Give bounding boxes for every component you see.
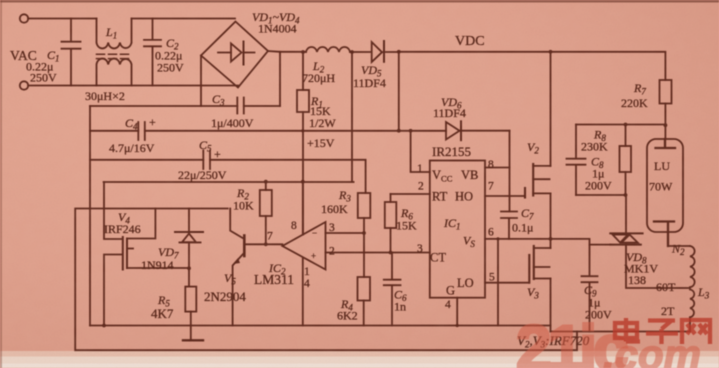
wire line C (22u line): [90, 160, 366, 193]
wire V2 drain column: [550, 52, 552, 166]
wire C8/R8 bottom rail: [576, 194, 626, 196]
resistor R2: [265, 182, 267, 190]
wire V3 source column: [550, 279, 552, 332]
wire R3-R4 divider column: [363, 218, 365, 277]
wire VD5-anode node column: [351, 52, 353, 182]
wire VDC to Vcc branch column: [398, 52, 400, 131]
wire AC bottom line: [28, 85, 238, 87]
wire pin1 stub: [411, 131, 430, 172]
IC1 IR2155 box: [430, 161, 485, 298]
wire lamp bottom to N2: [668, 245, 690, 247]
wire line D (+15V rail): [104, 181, 354, 183]
wire half-bridge midpoint column: [550, 193, 552, 248]
op-amp IC2 LM311 triangle: [282, 222, 325, 270]
wire V4 gate column: [104, 182, 122, 326]
resistor R7: [660, 80, 672, 104]
wire diac top to R8: [625, 195, 627, 233]
wire LM311 pin2 input to CT: [326, 252, 430, 254]
resistor R6: [390, 194, 392, 202]
wire LO-side column: [497, 239, 499, 326]
resistor R5: [185, 287, 196, 312]
wire DC+ to L2: [280, 51, 306, 53]
bridge rectifier VD1-VD4 diamond: [201, 22, 268, 88]
lamp LU 70W tube: [647, 139, 683, 232]
wire midpoint rail to resonant: [551, 239, 611, 245]
diode VD6: [446, 122, 460, 140]
capacitor C1: [62, 19, 81, 86]
wire AC top line: [28, 18, 235, 20]
wire line B (Vcc line): [90, 130, 510, 132]
transistor V2 MOSFET: [524, 188, 526, 198]
IC1 pin numbers: [417, 159, 495, 311]
capacitor C9: [582, 245, 598, 332]
wire lamp top rail: [576, 124, 665, 126]
diode VD5: [372, 42, 382, 62]
wire line A (C3 line): [90, 105, 280, 107]
wire feedback box: [75, 209, 577, 351]
winding N2 60T: [690, 246, 695, 287]
wire L3 bottom return: [551, 317, 691, 331]
wire bottom bus: [90, 325, 551, 327]
resistor R3: [358, 193, 371, 218]
terminal top VAC: [20, 14, 28, 22]
inductor L2: [306, 47, 350, 52]
wire pin4 column: [456, 298, 458, 326]
resistor R4: [358, 277, 371, 301]
inductor L1 common-mode choke: [97, 19, 132, 49]
wire left bus column: [89, 106, 91, 326]
transistor V3 MOSFET: [528, 255, 530, 283]
resistor R1: [302, 52, 304, 90]
wire LM311 pin8 column: [302, 182, 304, 235]
winding L3 2T: [690, 290, 694, 318]
wire diac bottom lead: [626, 245, 690, 288]
capacitor C3: [237, 98, 244, 114]
wire LM311 pin1/4 column: [302, 258, 304, 326]
wire pin8 stub: [485, 167, 510, 169]
wire bridge AC left leg: [200, 56, 202, 107]
wire pin6 VS line: [485, 238, 551, 240]
watermark char dian: [615, 318, 710, 344]
wire pin5 LO stub: [485, 282, 529, 284]
capacitor C8: [567, 125, 586, 196]
resistor R8: [625, 125, 627, 147]
wire L2 to VD5: [350, 51, 372, 53]
wire VDC line: [384, 52, 666, 80]
wire pin2 RT stub: [391, 193, 430, 195]
capacitor C2: [144, 19, 161, 86]
capacitor C6: [384, 253, 401, 326]
wire LM311 pin3 input: [326, 232, 365, 234]
diode VD7: [188, 209, 190, 233]
watermark char zi: [646, 321, 678, 345]
diac VD8: [610, 232, 642, 234]
wire VB bootstrap column: [509, 131, 511, 212]
capacitor C4: [138, 122, 145, 140]
transistor V4 MOSFET: [123, 237, 127, 270]
ground bar under R5: [183, 339, 203, 341]
wire R2 to base node: [265, 216, 267, 244]
wire R1 column down to +15V rail: [302, 112, 304, 235]
terminal bottom VAC: [20, 81, 28, 89]
transistor V5 2N2904: [243, 236, 246, 257]
bridge internal diode symbol: [218, 52, 231, 54]
capacitor C7: [501, 212, 517, 239]
IC2 pin numbers: [267, 220, 335, 290]
watermark char wang: [682, 320, 710, 344]
wire pin7 HO stub: [485, 195, 525, 197]
wire bridge DC+ output: [268, 51, 280, 106]
capacitor C5: [203, 151, 210, 170]
